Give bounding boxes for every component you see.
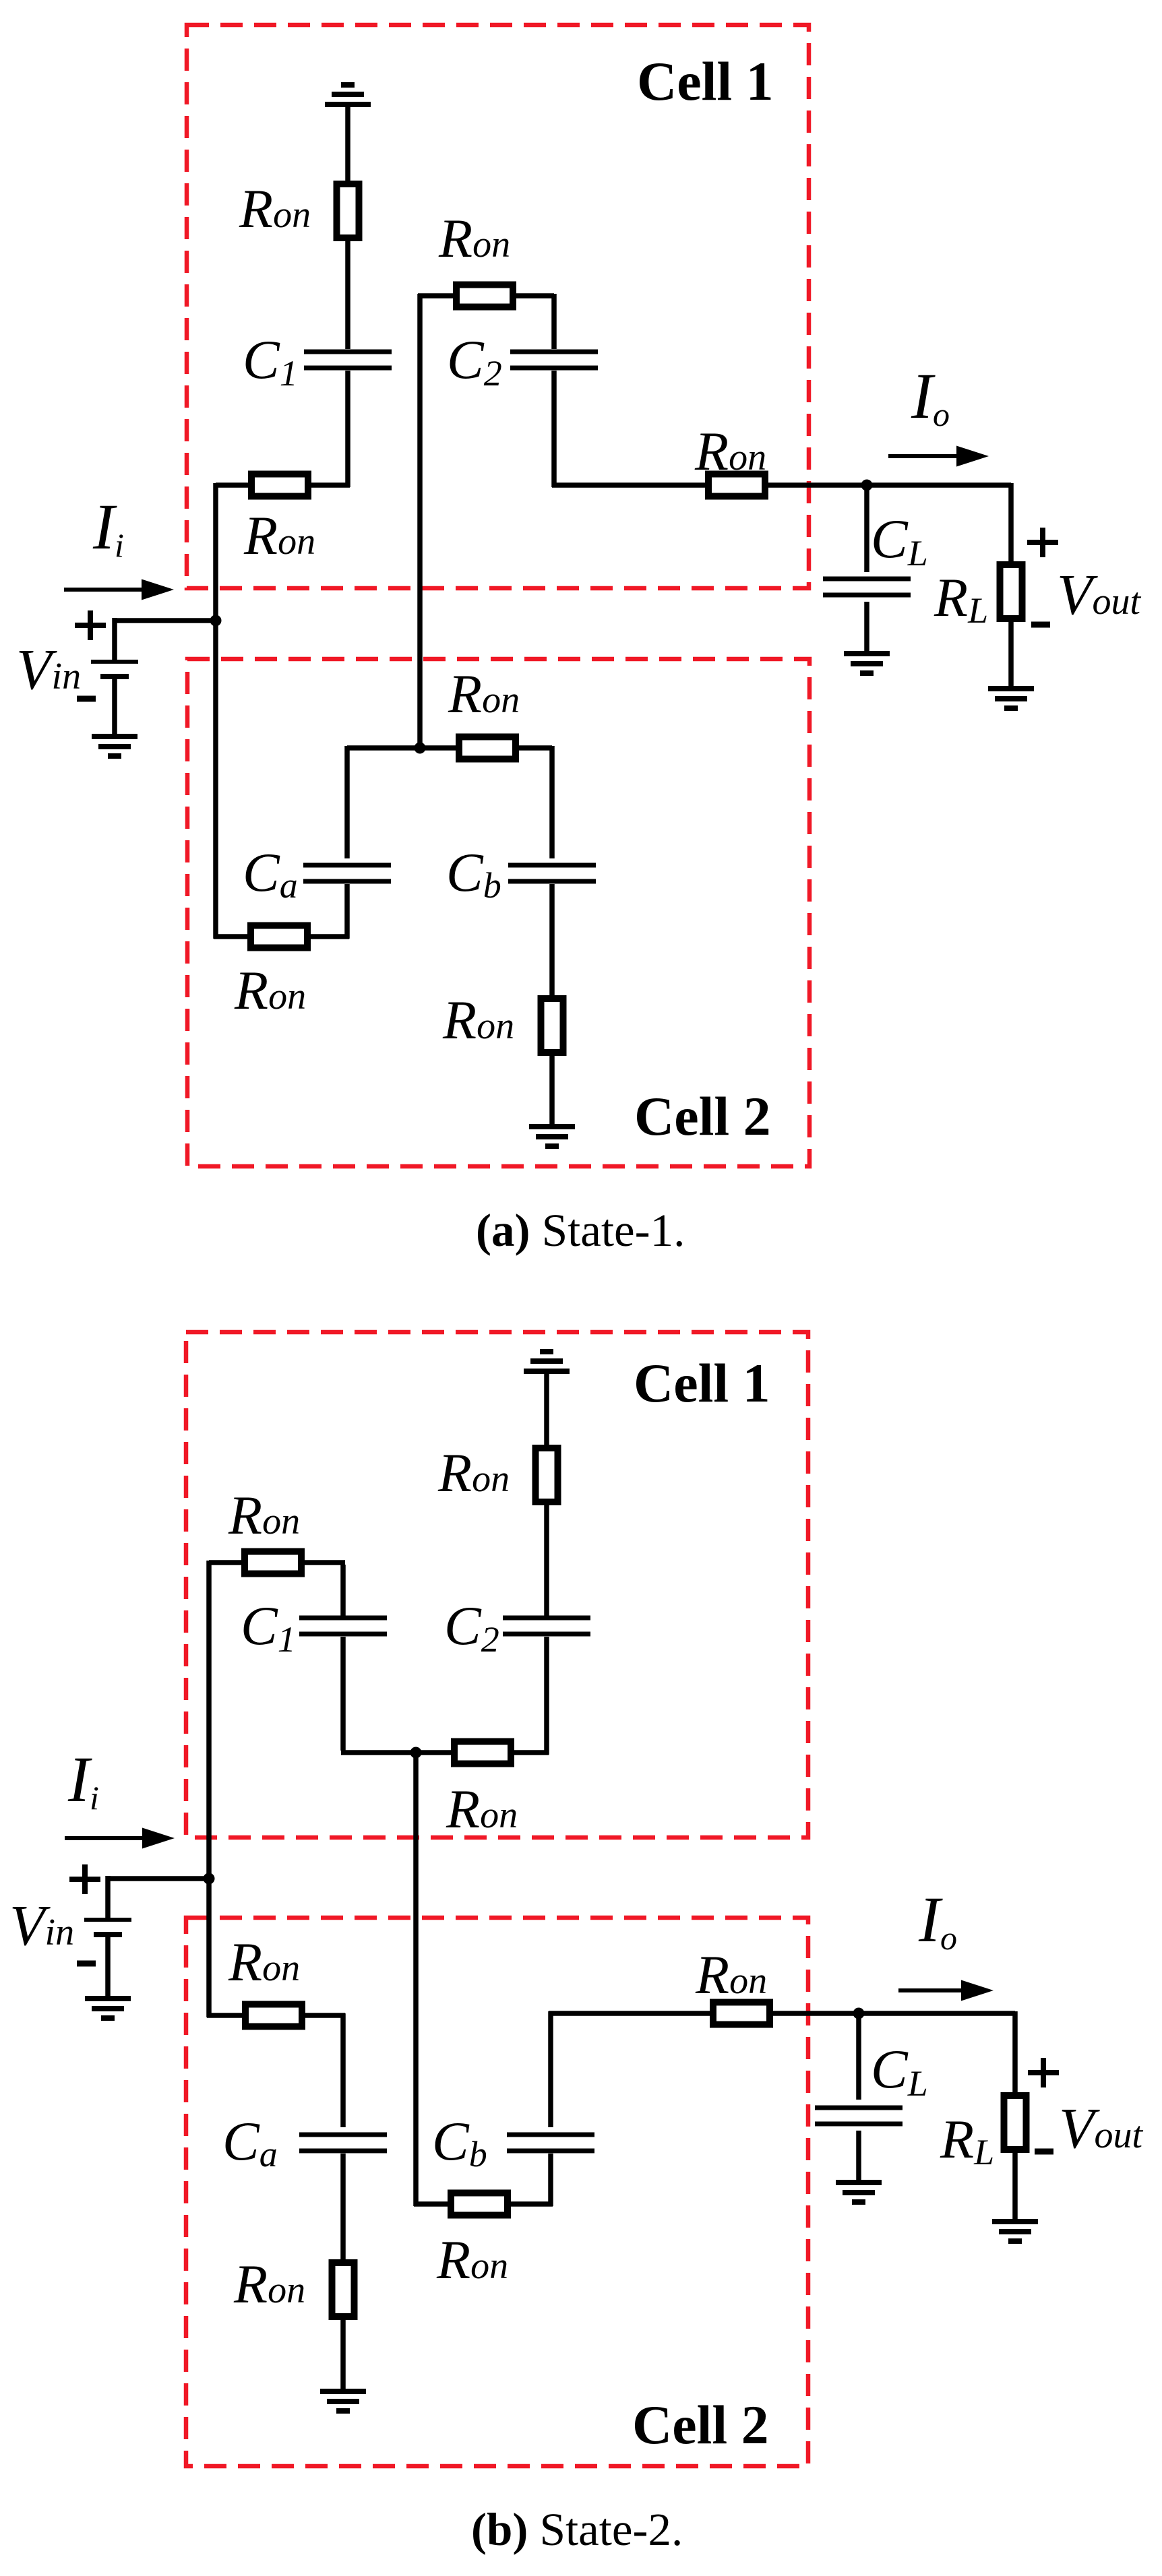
wire output rail (state-2) [549,2011,1015,2016]
wire CL drop (state-2) [856,2011,861,2100]
cell 1 dashed box (state-2) [186,1332,808,1837]
caption (a) State-1. [476,1205,685,1256]
minus sign Vout (state-1) [1031,622,1050,628]
label Vout (state-2) [1059,2096,1144,2160]
resistor RL (load, state-1) [934,565,1022,631]
minus sign Vin (state-1) [77,696,96,702]
arrow input current Ii (state-2) [65,1828,175,1849]
resistor Ron R14 (output side, state-2) [695,1944,770,2025]
resistor Ron R9 (cell 1 bottom, state-2) [446,1742,518,1840]
svg-text:Cell 1: Cell 1 [637,51,774,112]
node output junction (state-1) [861,480,873,491]
plus sign Vout (state-2) [1028,2058,1059,2087]
capacitor Cb (state-2) [432,2110,594,2174]
label Vin (state-1) [16,637,81,701]
voltage source Vin (state-1) [91,662,138,677]
wire cell2 rail right [516,745,552,751]
wire left rail (node A to C1) [216,482,350,488]
resistor Ron R10 (cell 1 left, state-2) [228,1484,301,1574]
plus sign Vin (state-2) [69,1864,100,1894]
wire cell1 bottom rail left [341,1750,456,1755]
label Io (state-1) [911,360,950,433]
wire RL to ground (state-2) [1012,2149,1018,2220]
resistor Ron R3 (parallel branch top, state-1) [438,208,513,307]
wire left vertical rail (state-2) [206,1561,212,2017]
wire CL to ground (state-2) [856,2131,861,2181]
wire C2 to bottom rail [544,1637,549,1755]
ground (cell 2, state-1) [529,1127,575,1146]
label Cell 1 (state-2) [634,1352,770,1414]
label Ii (state-1) [92,491,124,564]
wire C2 loop top right [512,293,554,299]
wire Vin plus lead [112,618,117,661]
capacitor Ca (state-2) [222,2110,387,2174]
wire R8 to C2 [544,1502,549,1616]
wire Vin to node (state-2) [106,1876,211,1881]
wire output rail (C2 to load) [552,482,1011,488]
wire load drop (state-2) [1012,2011,1018,2097]
svg-text:Cell 1: Cell 1 [634,1352,770,1414]
wire cell2 rail left [347,745,461,751]
wire C2 to output rail [551,371,557,487]
resistor Ron R7 (cell 2 bottom, state-1) [442,989,563,1053]
node output junction (state-2) [853,2008,865,2019]
ground (below RL, state-2) [992,2222,1038,2241]
wire CL to ground [864,602,869,652]
wire Ca to R12 (state-2) [340,2154,346,2264]
ground (below CL, state-2) [836,2182,882,2202]
wire Cb drop [549,746,555,858]
ground (top of cell 1, state-1) [325,85,371,104]
label Vout (state-1) [1057,562,1142,627]
label Vin (state-2) [9,1893,74,1957]
wire Vin to node [113,618,218,623]
svg-text:(a) State-1.: (a) State-1. [476,1205,685,1256]
resistor Ron R4 (output side, state-1) [694,420,766,497]
wire cell2 bottom rail right (state-2) [508,2201,553,2207]
wire Ca to bottom rail [344,884,350,939]
resistor Ron R5 (cell 2 top, state-1) [448,663,520,759]
wire cell2 top rail (state-2) [207,2013,345,2018]
plus sign Vout (state-1) [1027,528,1058,557]
wire left vertical rail (Vin node down to cell 2) [213,483,218,939]
resistor Ron R6 (cell 2 left, state-1) [234,926,307,1022]
resistor Ron R8 (series with C2, state-2) [437,1442,558,1503]
capacitor C2 (state-1) [447,329,598,394]
wire R7 to ground [549,1053,555,1125]
ground (below Vin, state-2) [85,1999,131,2018]
node Vin junction (state-2) [204,1873,215,1885]
arrow output current Io (state-2) [898,1980,993,2001]
capacitor C2 (state-2) [444,1595,590,1660]
wire Vin plus lead (state-2) [105,1876,111,1919]
resistor Ron R2 (input side, state-1) [243,474,315,567]
wire Cb to R7 [549,884,555,999]
minus sign Vin (state-2) [77,1961,96,1967]
label Cell 2 (state-1) [634,1086,771,1147]
capacitor CL (state-2) [815,2038,928,2124]
voltage source Vin (state-2) [84,1920,131,1935]
cell 2 dashed box (state-1) [187,659,809,1166]
wire C1 bottom drop [340,1637,346,1751]
wire cell2 bottom rail [214,934,349,939]
label Io (state-2) [918,1883,957,1957]
resistor Ron R12 (cell 2 left bottom, state-2) [233,2253,355,2317]
label Ii (state-2) [67,1743,99,1817]
wire Vin minus lead (state-2) [105,1936,111,1997]
wire C1 to left rail [345,371,350,487]
wire Vin minus lead [112,678,117,735]
ground (cell 2 left, state-2) [320,2391,366,2411]
ground (top of cell 1, state-2) [524,1352,570,1371]
svg-text:Cell 2: Cell 2 [632,2394,769,2455]
capacitor C1 (state-2) [241,1595,387,1660]
resistor Ron R1 (series with C1, state-1) [239,178,359,239]
node Vin junction (state-1) [210,615,222,627]
svg-text:(b) State-2.: (b) State-2. [471,2504,683,2555]
wire ground to R1 [345,104,350,187]
wire RL to ground [1008,619,1014,687]
cell 1 dashed box (state-1) [187,25,809,588]
plus sign Vin (state-1) [75,610,106,640]
capacitor Cb (state-1) [446,842,596,906]
minus sign Vout (state-2) [1035,2149,1053,2155]
label Cell 1 (state-1) [637,51,774,112]
wire cell1 top rail [209,1560,345,1565]
capacitor C1 (state-1) [243,329,392,394]
ground (below CL, state-1) [844,654,890,673]
arrow input current Ii (state-1) [64,579,174,600]
capacitor CL (state-1) [823,508,928,595]
wire R12 to ground (state-2) [340,2317,346,2390]
wire ground to R8 [544,1371,549,1449]
resistor Ron R11 (cell 2 input, state-2) [228,1931,302,2027]
wire load drop [1008,483,1014,566]
node cell 2 junction (state-1) [415,743,426,754]
wire R3 to C2 [551,294,557,349]
resistor RL (load, state-2) [940,2096,1027,2172]
label Cell 2 (state-2) [632,2394,769,2455]
wire C2 loop top left [418,293,456,299]
capacitor Ca (state-1) [243,842,391,906]
wire Cb to output rail (state-2) [548,2011,553,2127]
wire cell1 bottom rail right [511,1750,549,1755]
svg-text:Cell 2: Cell 2 [634,1086,771,1147]
caption (b) State-2. [471,2504,683,2555]
ground (below Vin, state-1) [92,736,137,756]
wire cell2 bottom rail (state-2) [414,2201,453,2207]
wire Ca drop (state-2) [340,2013,346,2127]
node cell 1 junction (state-2) [410,1747,422,1759]
wire C2 loop left vertical (down into cell 2) [417,294,423,748]
wire R1 to C1 [345,235,350,349]
wire C1 to top rail [340,1565,346,1616]
wire CL drop [864,483,869,572]
wire Cb drop (state-2) [548,2154,553,2206]
ground (below RL, state-1) [988,689,1034,708]
resistor Ron R13 (cell 2 bottom, state-2) [436,2193,508,2291]
cell 2 dashed box (state-2) [186,1918,808,2466]
wire Ca drop [344,746,350,858]
wire center vertical (node to cell 2, state-2) [413,1753,419,2206]
arrow output current Io (state-1) [888,446,989,467]
